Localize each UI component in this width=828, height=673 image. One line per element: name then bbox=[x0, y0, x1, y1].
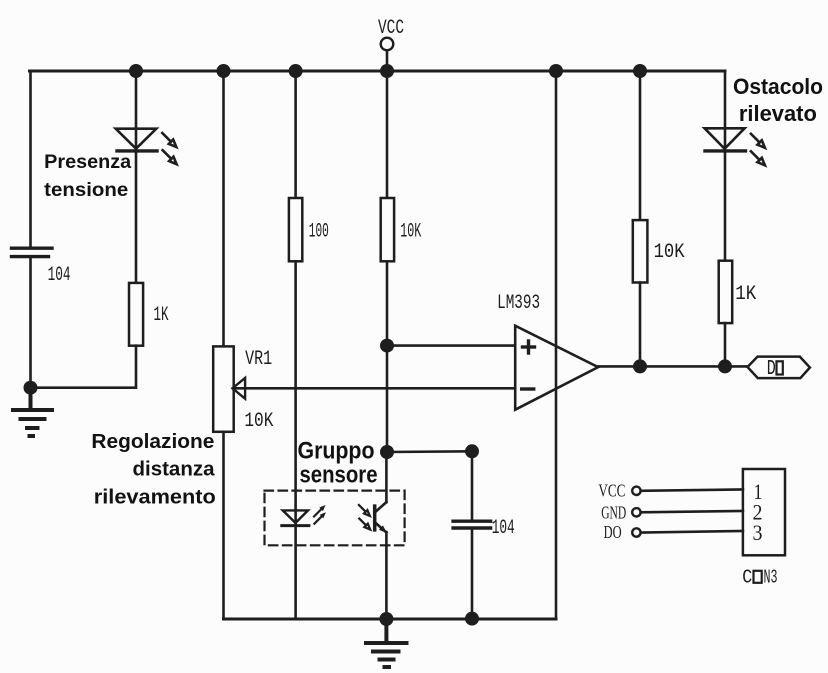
resistor 10K (middle) bbox=[381, 198, 422, 261]
node rail junction A bbox=[129, 64, 143, 78]
net label DO bbox=[748, 357, 810, 381]
node bottom rail junction (emitter) bbox=[379, 612, 393, 626]
svg-text:distanza: distanza bbox=[133, 459, 216, 481]
wire rail to LED D1 bbox=[135, 71, 138, 152]
node ground junction left bbox=[24, 381, 38, 395]
resistor 1K (right) bbox=[719, 261, 757, 323]
wire collector node to capacitor 104 bbox=[387, 450, 472, 453]
svg-text:Presenza: Presenza bbox=[44, 151, 131, 173]
svg-text:VCC: VCC bbox=[378, 17, 404, 40]
svg-text:GND: GND bbox=[601, 503, 626, 523]
sensor group dashed box bbox=[265, 491, 405, 546]
potentiometer VR1 10K bbox=[213, 346, 273, 433]
capacitor 104 (bottom) bbox=[453, 517, 515, 540]
wire phototransistor emitter to bottom rail bbox=[385, 532, 388, 619]
label Gruppo sensore bbox=[298, 437, 378, 488]
svg-text:100: 100 bbox=[309, 221, 329, 244]
svg-text:10K: 10K bbox=[400, 221, 421, 244]
wire bottom rail bbox=[224, 618, 557, 621]
node rail junction C (100 ohm column) bbox=[289, 64, 303, 78]
wire VR1 bottom to bottom rail bbox=[222, 432, 225, 619]
node rail junction B (VR1 column) bbox=[217, 64, 231, 78]
node non-inverting input junction bbox=[380, 339, 394, 353]
wire DO pin to connector bbox=[641, 531, 743, 533]
pin GND terminal bbox=[601, 503, 640, 523]
ground (bottom) bbox=[366, 619, 407, 667]
connector CON3 bbox=[742, 469, 785, 589]
label Presenza tensione bbox=[44, 151, 131, 201]
svg-text:DO: DO bbox=[604, 522, 622, 542]
svg-text:C: C bbox=[742, 567, 752, 589]
svg-text:tensione: tensione bbox=[44, 179, 128, 201]
svg-text:3: 3 bbox=[753, 520, 763, 545]
resistor 10K (right) bbox=[633, 220, 685, 282]
svg-text:rilevato: rilevato bbox=[739, 101, 817, 126]
svg-text:Gruppo: Gruppo bbox=[298, 437, 375, 464]
node capacitor junction bbox=[465, 444, 479, 458]
svg-text:Regolazione: Regolazione bbox=[91, 431, 214, 453]
svg-text:10K: 10K bbox=[654, 241, 685, 264]
node rail junction F (10K right column) bbox=[633, 64, 647, 78]
wire rail to VR1 bbox=[222, 71, 225, 346]
wire capacitor bottom lead bbox=[471, 530, 474, 619]
label Ostacolo rilevato bbox=[733, 74, 823, 126]
svg-text:VCC: VCC bbox=[598, 481, 625, 501]
wire comparator supply/ground column bbox=[555, 71, 558, 619]
svg-text:Ostacolo: Ostacolo bbox=[733, 74, 823, 99]
resistor 1K (left) bbox=[129, 283, 169, 346]
pin VCC terminal bbox=[598, 481, 640, 501]
node capacitor bottom junction bbox=[465, 612, 479, 626]
wire capacitor to ground junction bbox=[29, 258, 32, 387]
node VCC terminal bbox=[378, 17, 404, 50]
svg-text:LM393: LM393 bbox=[497, 292, 540, 315]
label Regolazione distanza rilevamento bbox=[91, 431, 215, 509]
wire rail to resistor 10K right bbox=[639, 71, 642, 220]
ground (left) bbox=[13, 388, 52, 436]
svg-text:N3: N3 bbox=[764, 567, 778, 589]
wire rail right edge down to LED D2 bbox=[724, 71, 727, 152]
wire resistor 1K to ground net bbox=[31, 346, 137, 388]
wire VCC stub bbox=[386, 50, 389, 71]
wire to comparator non-inverting input bbox=[387, 344, 515, 347]
wire IR LED to bottom rail bbox=[294, 526, 297, 619]
svg-text:1K: 1K bbox=[154, 304, 169, 327]
op-amp U1 LM393 bbox=[497, 292, 598, 410]
pin DO terminal bbox=[604, 522, 641, 542]
capacitor 104 (left) bbox=[12, 248, 71, 287]
resistor 100 bbox=[289, 198, 329, 261]
wire resistor 10K to phototransistor collector node bbox=[386, 261, 389, 452]
wire LED D2 to resistor 1K right bbox=[724, 153, 727, 261]
svg-text:104: 104 bbox=[492, 517, 515, 540]
svg-text:104: 104 bbox=[48, 264, 71, 287]
wire VCC pin to connector bbox=[641, 490, 743, 491]
wire comparator output bbox=[598, 365, 747, 368]
svg-text:1K: 1K bbox=[735, 283, 756, 306]
svg-text:VR1: VR1 bbox=[245, 348, 272, 371]
wire GND pin to connector bbox=[641, 511, 743, 512]
wire resistor 1K right to output bbox=[724, 323, 727, 366]
phototransistor Q1 (in sensor group) bbox=[359, 452, 387, 533]
wire rail to resistor 10K mid bbox=[386, 71, 389, 198]
wire top rail bbox=[30, 70, 726, 73]
svg-text:10K: 10K bbox=[244, 410, 273, 433]
svg-text:D: D bbox=[767, 358, 776, 381]
node rail junction D (VCC column) bbox=[380, 64, 394, 78]
svg-text:rilevamento: rilevamento bbox=[94, 486, 216, 508]
wire rail to resistor 100 bbox=[294, 71, 297, 198]
node output junction 2 bbox=[718, 359, 732, 373]
wire resistor 100 to IR LED bbox=[294, 261, 297, 525]
wire left edge down to capacitor bbox=[29, 71, 32, 247]
node collector junction bbox=[380, 445, 394, 459]
IR LED emitter (in sensor group) bbox=[282, 505, 326, 526]
LED D1 Presenza tensione bbox=[116, 129, 177, 165]
LED D2 Ostacolo rilevato bbox=[705, 128, 765, 165]
svg-text:sensore: sensore bbox=[300, 461, 378, 488]
node rail junction E (comparator supply column) bbox=[549, 64, 563, 78]
wire resistor 10K right to output bbox=[639, 283, 642, 367]
node output junction 1 bbox=[633, 359, 647, 373]
wire VR1 wiper to comparator inverting input bbox=[233, 387, 515, 390]
wire capacitor top lead bbox=[471, 451, 474, 519]
wire LED to resistor R 1K bbox=[135, 153, 138, 283]
